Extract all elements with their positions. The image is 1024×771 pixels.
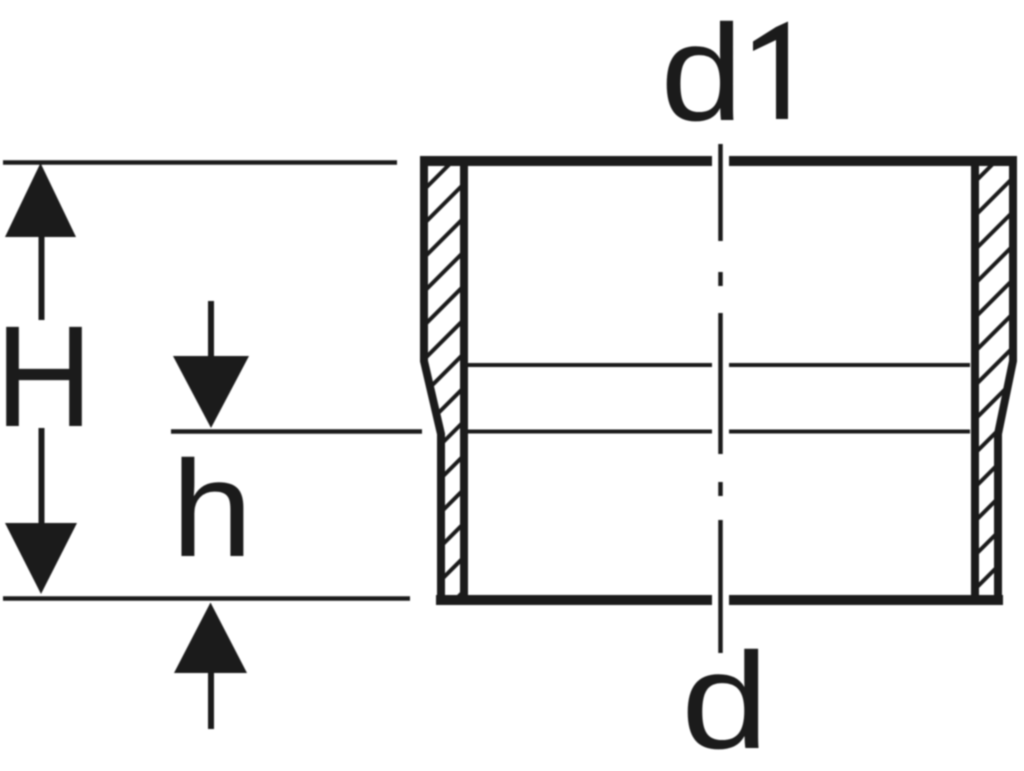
centerline dash-dot [718,144,723,653]
svg-text:h: h [171,433,253,585]
H dimension down arrow [5,523,77,594]
wire top extension line [3,160,397,165]
centerline white casing [712,144,729,653]
H dimension up arrow [5,163,76,237]
wire h dimension line [171,429,422,434]
socket bottom edge [436,595,1003,605]
wire interior shoulder line lower [468,430,970,434]
svg-text:d: d [661,0,744,150]
socket top edge [420,156,1017,166]
socket right wall hatched [975,161,1013,600]
h dimension down arrow [173,356,249,428]
wire bottom extension line [3,596,410,601]
h dimension up arrow [174,603,247,674]
svg-text:H: H [0,295,93,457]
socket left wall hatched [424,161,464,600]
svg-text:d: d [681,625,769,771]
wire interior shoulder line upper [468,363,970,367]
